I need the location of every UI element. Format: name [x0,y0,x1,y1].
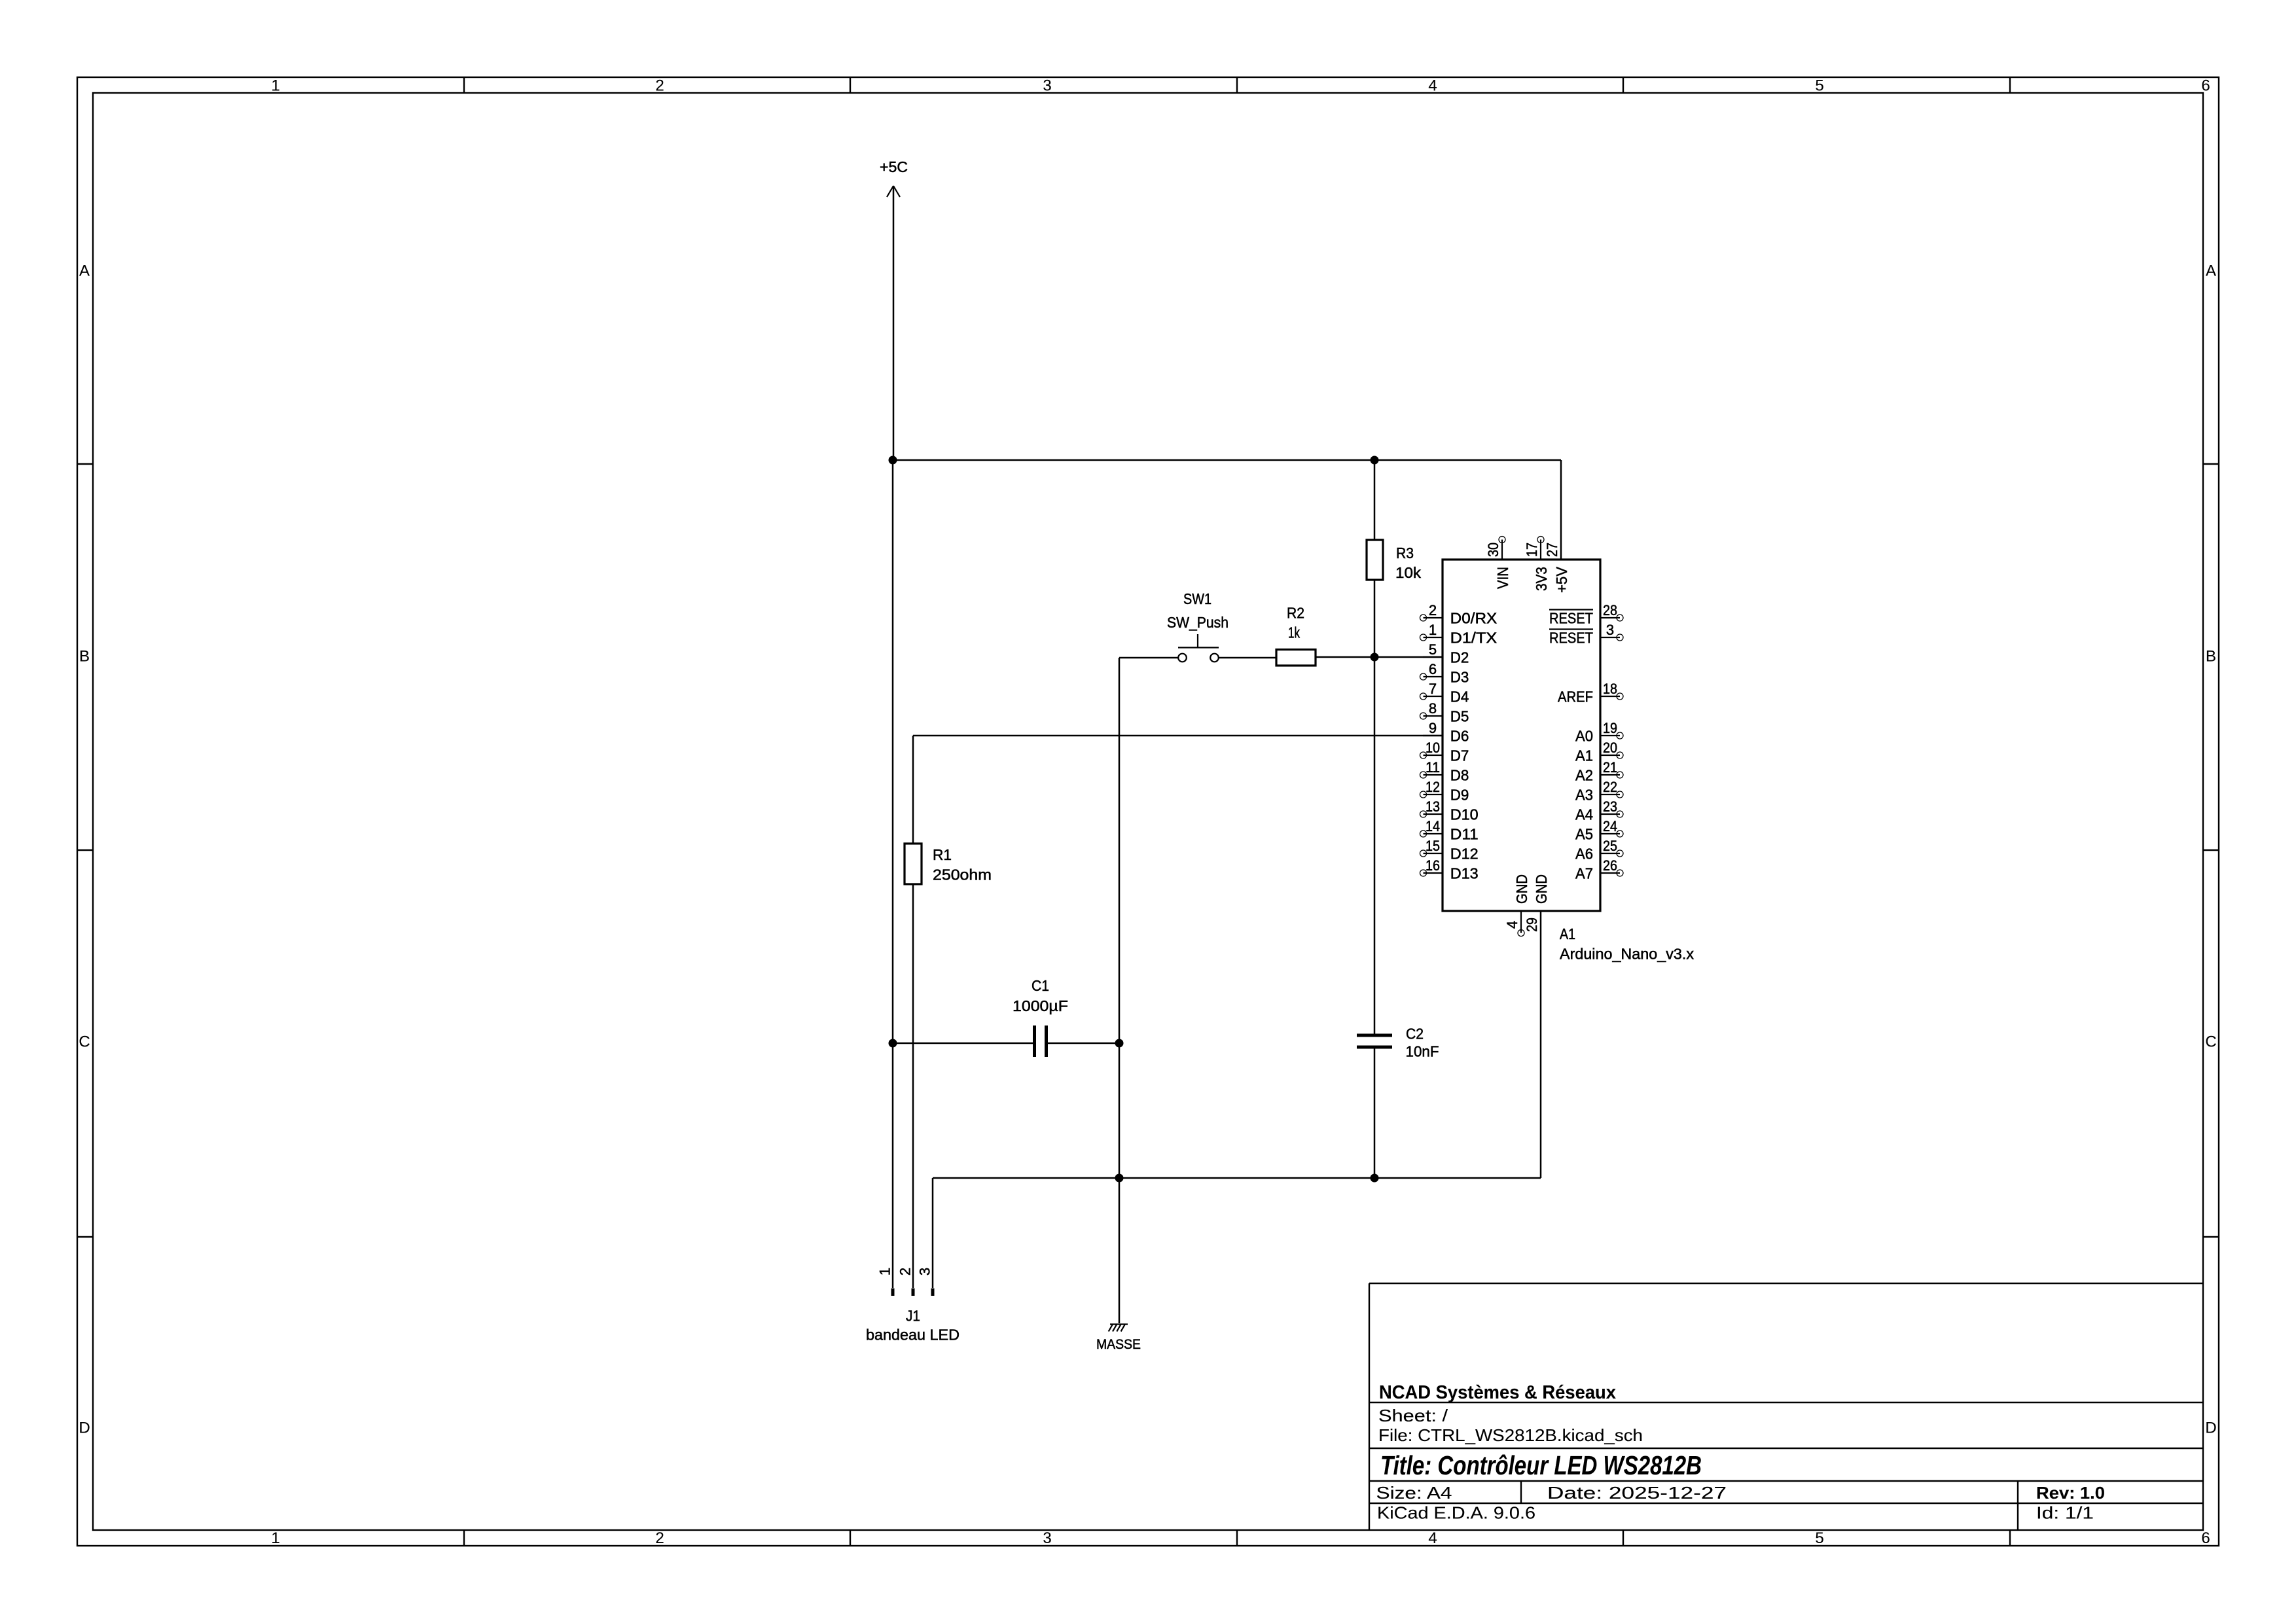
A1 left pin 10 D7 [1420,740,1469,764]
A1 left pin 5 D2 [1423,641,1469,666]
wire SW1 branch vertical (1710,1005)-(1710,2022) [1119,658,1121,1323]
svg-text:MASSE: MASSE [1096,1336,1141,1352]
svg-text:Sheet: /: Sheet: / [1378,1406,1448,1425]
svg-text:18: 18 [1603,681,1617,697]
svg-text:24: 24 [1603,818,1617,834]
svg-text:RESET: RESET [1549,630,1593,647]
svg-text:5: 5 [1429,641,1437,658]
svg-text:1: 1 [271,1529,279,1547]
ground MASSE [1096,1325,1141,1353]
svg-text:A7: A7 [1575,865,1593,882]
svg-text:R3: R3 [1396,544,1414,562]
svg-text:bandeau LED: bandeau LED [866,1327,960,1344]
svg-text:250ohm: 250ohm [933,866,992,883]
wire R1 bottom lead to J1 pin2 (1395,1351)-(1395,1968) [912,884,914,1288]
resistor R3 [1367,540,1421,581]
resistor R1 [905,844,992,884]
A1 bottom pin 29 GND [1524,874,1550,932]
wire GND bottom horizontal (1425,1800)-(2354,1800) [933,1177,1541,1179]
wire R3 top lead [1374,460,1376,540]
svg-text:3V3: 3V3 [1533,567,1550,591]
A1 top pin 27 +5V [1544,543,1570,593]
wire J1 pin3 riser (1425,1800)-(1425,1968) [932,1178,934,1288]
svg-text:6: 6 [2201,77,2210,95]
capacitor C2 [1357,1026,1439,1060]
svg-text:A4: A4 [1575,806,1593,823]
svg-text:20: 20 [1603,740,1617,756]
connector J1 bandeau LED [866,1268,960,1344]
svg-text:Date: 2025-12-27: Date: 2025-12-27 [1547,1483,1727,1503]
svg-text:19: 19 [1603,720,1617,736]
A1 right pin 20 A1 [1575,740,1623,764]
svg-text:4: 4 [1428,77,1437,95]
svg-text:Arduino_Nano_v3.x: Arduino_Nano_v3.x [1560,946,1694,963]
svg-text:Rev: 1.0: Rev: 1.0 [2036,1483,2105,1503]
node junction C1/vertical [1115,1039,1124,1048]
svg-text:D8: D8 [1450,767,1469,784]
A1 right pin 18 AREF [1558,681,1623,705]
svg-text:D13: D13 [1450,865,1479,882]
svg-text:Size: A4: Size: A4 [1376,1483,1452,1503]
A1 left pin 7 D4 [1420,681,1469,705]
svg-text:D: D [2205,1419,2216,1437]
svg-text:14: 14 [1426,818,1440,834]
switch SW1 SW_Push [1167,590,1229,662]
svg-text:C: C [2205,1033,2216,1051]
svg-text:1000µF: 1000µF [1013,997,1068,1014]
svg-text:B: B [79,648,90,666]
svg-text:3: 3 [1043,1529,1051,1547]
wire +5V top rail horizontal (1364,703)-(2385,703) [893,459,1561,461]
svg-text:17: 17 [1524,543,1540,557]
A1 left pin 16 D13 [1420,857,1479,882]
A1 left pin 8 D5 [1420,700,1469,725]
svg-text:AREF: AREF [1558,688,1593,705]
svg-text:26: 26 [1603,857,1617,874]
A1 left pin 15 D12 [1420,838,1479,863]
svg-text:11: 11 [1426,759,1440,776]
svg-text:28: 28 [1603,602,1617,618]
svg-text:A0: A0 [1575,728,1593,745]
svg-text:A3: A3 [1575,787,1593,804]
svg-text:A5: A5 [1575,826,1593,843]
A1 left pin 1 D1/TX [1420,622,1498,647]
node junction MASSE branch [1115,1174,1124,1183]
svg-text:1: 1 [877,1268,893,1275]
svg-text:3: 3 [1043,77,1051,95]
A1 left pin 2 D0/RX [1420,602,1498,627]
svg-text:27: 27 [1544,543,1560,557]
svg-text:3: 3 [917,1268,933,1275]
svg-text:2: 2 [655,77,664,95]
svg-text:C2: C2 [1406,1026,1424,1043]
svg-text:C1: C1 [1031,977,1049,994]
svg-text:2: 2 [897,1268,914,1275]
A1 right pin 21 A2 [1575,759,1623,784]
svg-text:Title: Contrôleur LED WS2812B: Title: Contrôleur LED WS2812B [1380,1450,1702,1480]
svg-text:D9: D9 [1450,787,1469,804]
svg-text:3: 3 [1606,622,1614,638]
svg-text:30: 30 [1485,543,1501,557]
A1 right pin 3 RESET [1549,622,1623,647]
svg-text:25: 25 [1603,838,1617,854]
svg-text:29: 29 [1524,918,1540,932]
svg-text:GND: GND [1513,874,1530,904]
svg-text:1: 1 [1429,622,1437,638]
svg-text:Id: 1/1: Id: 1/1 [2036,1503,2094,1523]
svg-text:4: 4 [1428,1529,1437,1547]
wire C2 bottom lead (2100,1600)-(2100,1800) [1374,1047,1376,1178]
A1 left pin 13 D10 [1420,798,1479,823]
svg-text:16: 16 [1426,857,1440,874]
svg-text:23: 23 [1603,798,1617,815]
svg-text:D2: D2 [1450,649,1469,666]
A1 left pin 9 D6 [1423,720,1469,745]
A1 right pin 19 A0 [1575,720,1623,745]
svg-text:D7: D7 [1450,747,1469,764]
svg-text:1: 1 [271,77,279,95]
svg-text:R2: R2 [1287,605,1304,622]
svg-text:D10: D10 [1450,806,1479,823]
A1 left pin 6 D3 [1420,661,1469,686]
svg-text:A: A [79,262,90,280]
A1 left pin 11 D8 [1420,759,1469,784]
A1 right pin 24 A5 [1575,818,1623,843]
svg-text:21: 21 [1603,759,1617,776]
svg-text:7: 7 [1429,681,1437,697]
svg-text:+5V: +5V [1553,567,1570,593]
wire D6 net horizontal (1395,1124)-(2204,1124) [913,735,1443,737]
svg-text:D6: D6 [1450,728,1469,745]
capacitor C1 [1013,977,1068,1057]
A1 right pin 23 A4 [1575,798,1623,823]
svg-text:1k: 1k [1288,624,1300,641]
svg-text:D0/RX: D0/RX [1450,610,1498,627]
svg-text:A: A [2206,262,2216,280]
wire C2 top lead (2100,1004)-(2100,1582) [1374,657,1376,1035]
A1 top pin 30 VIN [1485,537,1511,590]
svg-text:22: 22 [1603,779,1617,795]
A1 right pin 28 RESET [1549,602,1623,627]
svg-text:5: 5 [1815,1529,1823,1547]
svg-text:8: 8 [1429,700,1437,717]
node junction rail/top-rail [889,456,897,465]
svg-text:NCAD Systèmes & Réseaux: NCAD Systèmes & Réseaux [1379,1382,1616,1403]
svg-text:D11: D11 [1450,826,1479,843]
power symbol +5C [880,158,908,460]
A1 top pin 17 3V3 [1524,537,1550,592]
svg-text:A1: A1 [1575,747,1593,764]
svg-text:D12: D12 [1450,846,1479,863]
A1 right pin 25 A6 [1575,838,1623,863]
svg-text:KiCad E.D.A. 9.0.6: KiCad E.D.A. 9.0.6 [1377,1503,1535,1523]
wire C1 right lead (1601,1594)-(1710,1594) [1048,1043,1119,1044]
svg-text:D: D [79,1419,90,1437]
svg-text:File: CTRL_WS2812B.kicad_sch: File: CTRL_WS2812B.kicad_sch [1378,1425,1643,1445]
resistor R2 [1276,605,1316,666]
svg-text:D4: D4 [1450,688,1469,705]
svg-text:SW_Push: SW_Push [1167,614,1229,631]
wire GND riser to pin 29 (2354,1422)-(2354,1800) [1540,911,1542,1178]
wire R3 bottom lead to D2 net [1374,580,1376,657]
svg-text:R1: R1 [933,846,952,863]
svg-text:4: 4 [1504,921,1520,929]
svg-text:C: C [79,1033,90,1051]
svg-text:B: B [2206,648,2216,666]
wire R1 top lead (1395,1124)-(1395,1289) [912,736,914,844]
node junction R3/D2 [1371,653,1379,662]
svg-text:10: 10 [1426,740,1440,756]
node junction C2 bottom [1371,1174,1379,1183]
svg-text:A6: A6 [1575,846,1593,863]
svg-text:RESET: RESET [1549,610,1593,627]
wire D2 net horizontal (2010,1004)-(2204,1004) [1316,656,1443,658]
A1 left pin 12 D9 [1420,779,1469,804]
A1 right pin 22 A3 [1575,779,1623,804]
IC A1 Arduino_Nano_v3.x body [1443,560,1694,963]
A1 left pin 14 D11 [1420,818,1479,843]
svg-text:10k: 10k [1395,564,1421,581]
svg-text:6: 6 [2201,1529,2210,1547]
svg-text:10nF: 10nF [1406,1043,1439,1060]
svg-text:2: 2 [1429,602,1437,618]
svg-text:9: 9 [1429,720,1437,736]
wire C1 left lead (1364,1594)-(1578,1594) [893,1043,1033,1044]
svg-text:D5: D5 [1450,708,1469,725]
svg-text:15: 15 [1426,838,1440,854]
svg-text:VIN: VIN [1494,567,1511,589]
svg-text:2: 2 [655,1529,664,1547]
svg-text:SW1: SW1 [1183,590,1211,607]
svg-text:D1/TX: D1/TX [1450,630,1498,647]
svg-text:A1: A1 [1560,925,1575,942]
A1 right pin 26 A7 [1575,857,1623,882]
svg-text:12: 12 [1426,779,1440,795]
svg-text:GND: GND [1533,874,1550,904]
wire SW1 right to R2 (1862,1005)-(1950,1005) [1219,657,1276,659]
wire SW1 left to bend (1710,1005)-(1800,1005) [1119,657,1178,659]
svg-text:13: 13 [1426,798,1440,815]
wire +5C rail vertical (1364,703)-(1364,1968) [892,460,894,1288]
svg-text:A2: A2 [1575,767,1593,784]
svg-text:+5C: +5C [880,158,908,175]
svg-text:D3: D3 [1450,669,1469,686]
node junction rail/C1 [889,1039,897,1048]
svg-text:5: 5 [1815,77,1823,95]
node junction R3 top [1371,456,1379,465]
A1 bottom pin 4 GND [1504,874,1530,936]
svg-text:J1: J1 [906,1308,920,1325]
svg-text:6: 6 [1429,661,1437,677]
wire +5V drop to pin 27 (2385,703)-(2385,855) [1560,460,1562,560]
